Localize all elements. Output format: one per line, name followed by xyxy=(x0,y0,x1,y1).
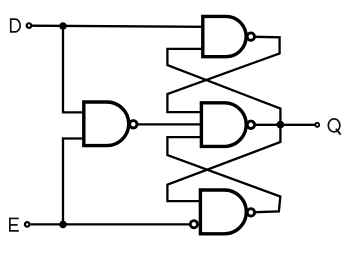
wire D input to NAND U1 top input xyxy=(32,26,204,27)
terminal Q xyxy=(315,123,319,127)
nand gate U2 (middle left) xyxy=(84,102,137,146)
terminal D xyxy=(27,23,32,28)
wire E branch up to NAND U2 bottom input xyxy=(63,139,87,225)
wire Q feedback cross down to U4 top input xyxy=(167,125,280,201)
nand gate U1 (top) xyxy=(203,16,255,56)
wire U4 output cross up to U3 bottom input xyxy=(167,137,280,212)
nand gate U4 (bottom) with inverted enable input xyxy=(190,190,254,234)
label D xyxy=(10,18,21,32)
wire D branch down to NAND U2 top input xyxy=(63,26,87,112)
wire Q feedback cross up to U1 bottom input xyxy=(167,49,280,125)
label E xyxy=(9,218,19,232)
wire U1 output cross down to U3 top input xyxy=(167,37,279,112)
nand gate U3 (middle right) xyxy=(201,103,254,147)
wire U2 output to U3 middle input xyxy=(138,123,204,125)
wire U3 output to Q terminal xyxy=(256,124,315,126)
node junction on E wire xyxy=(59,221,67,229)
terminal E xyxy=(25,222,30,227)
node junction on D wire xyxy=(59,22,67,30)
node junction Q xyxy=(277,121,285,129)
label Q xyxy=(328,119,340,135)
wire E input to U4 inverted input xyxy=(31,223,190,225)
